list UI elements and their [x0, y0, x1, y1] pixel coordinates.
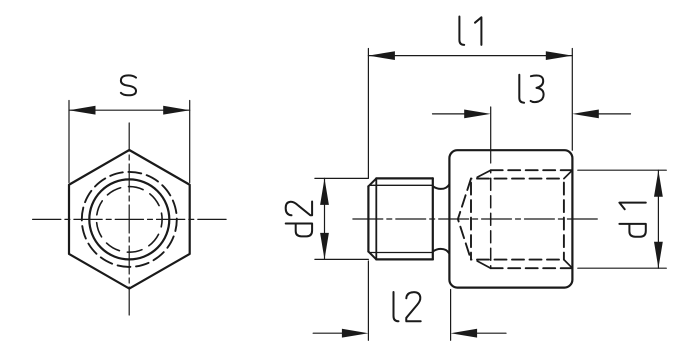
male stub chamfer edge line: [375, 178, 377, 259]
male stub right end face: [432, 178, 434, 259]
dimension l1: right extension line: [571, 49, 573, 151]
male thread minor line top: [371, 184, 433, 186]
hex body side view (rounded rect): [449, 150, 572, 287]
dimension l2: left arrowhead (pointing right): [342, 329, 369, 338]
dimension l2: right extension line: [450, 290, 452, 341]
male stub bottom edge: [376, 258, 433, 260]
dimension s: extension line left: [68, 101, 70, 183]
thread end vertical (hidden): [490, 170, 492, 268]
female thread major line bottom (hidden): [491, 267, 573, 269]
drill cone edge vertical (hidden): [470, 179, 472, 260]
dimension l3: left arrow tail: [433, 113, 467, 115]
neck undercut bottom: [433, 249, 450, 254]
dimension d1: top extension line: [578, 169, 667, 171]
male thread minor line bottom: [371, 252, 433, 254]
male thread minor circle (thin broken arc): [97, 187, 163, 253]
dimension d1: bottom arrowhead: [654, 242, 663, 269]
label l2: [394, 292, 421, 321]
dimension l3: right arrow tail: [597, 113, 631, 115]
label l3: [519, 75, 543, 103]
dimension s: dimension line: [69, 109, 190, 111]
horizontal centerline left view: [33, 218, 227, 220]
male thread OD circle (solid): [89, 179, 169, 259]
dimension l3: right arrowhead (pointing left): [572, 110, 599, 119]
female thread minor line top (hidden): [471, 178, 564, 180]
dimension l3: left extension line: [490, 107, 492, 163]
label d1 (rotated): [619, 203, 645, 237]
hex body outline: [69, 150, 190, 289]
dimension l2: right arrow tail: [475, 332, 506, 334]
neck undercut top: [433, 184, 450, 189]
dimension d2: top extension line: [315, 177, 369, 179]
dimension l3: left arrowhead (pointing right): [464, 110, 491, 119]
dimension d1: dimension line: [657, 170, 659, 268]
label l1: [459, 17, 481, 45]
dimension l1: right arrowhead: [546, 51, 573, 60]
entrance chamfer edge vertical (hidden): [563, 179, 565, 260]
dimension s: right arrowhead: [163, 106, 190, 115]
thread runout lower (hidden): [477, 261, 491, 268]
entrance chamfer lower (hidden): [564, 260, 573, 269]
dimension d1: top arrowhead: [654, 170, 663, 197]
male stub left end face: [367, 186, 369, 251]
male stub top-left chamfer: [368, 178, 376, 186]
dimension l2: left extension line: [367, 261, 369, 340]
dimension d2: bottom arrowhead: [320, 233, 329, 260]
vertical centerline left view: [128, 123, 130, 315]
dimension d2: bottom extension line: [315, 258, 369, 260]
female thread major line top (hidden): [491, 169, 573, 171]
drill cone upper (hidden): [458, 179, 471, 220]
drill cone lower (hidden): [458, 219, 471, 260]
entrance chamfer upper (hidden): [564, 170, 573, 178]
dimension d1: bottom extension line: [578, 267, 667, 269]
female thread minor line bottom (hidden): [471, 259, 564, 261]
dimension l1: dimension line: [368, 55, 572, 57]
dimension d2: top arrowhead: [320, 178, 329, 205]
dimension l1: left arrowhead: [368, 51, 395, 60]
dimension s: left arrowhead: [69, 106, 96, 115]
dimension d2: dimension line: [324, 178, 326, 259]
thread runout upper (hidden): [477, 170, 491, 177]
dimension l2: left arrow tail: [313, 332, 344, 334]
label s: [121, 75, 136, 95]
dimension l2: right arrowhead (pointing left): [451, 329, 478, 338]
dimension s: extension line right: [189, 101, 191, 183]
dimension l1: left extension line: [367, 49, 369, 179]
horizontal centerline right view: [353, 218, 598, 220]
male stub bottom-left chamfer: [368, 252, 376, 260]
label d2 (rotated): [286, 201, 312, 236]
male stub top edge: [376, 177, 433, 179]
hidden female thread major circle (dashed): [82, 172, 177, 267]
